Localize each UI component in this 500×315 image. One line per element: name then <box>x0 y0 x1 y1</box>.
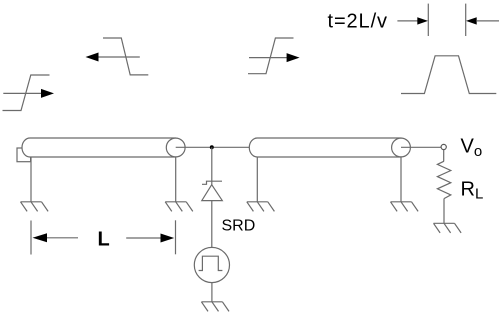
dimension line t arrow right segment <box>477 20 499 22</box>
arrowhead left (t dimension) <box>466 17 477 24</box>
wire arrow line right 2 <box>249 57 288 59</box>
wire TL2 left ground drop <box>256 157 258 202</box>
pulse source circle <box>194 247 229 282</box>
wire pulse source to ground <box>211 283 213 302</box>
wire arrow line left (reflection arrow) <box>97 56 140 58</box>
pulse source square-wave symbol <box>199 256 223 270</box>
wire resistor to ground <box>443 199 445 224</box>
diode SRD cathode bar <box>202 181 222 184</box>
wire TL1 left ground drop <box>30 157 32 202</box>
waveform step left-low (input step) <box>3 75 50 111</box>
dimension tick left <box>427 4 429 36</box>
ground TL1 left <box>21 202 49 212</box>
wire TL2 right ground drop <box>400 157 402 202</box>
SRD diode branch <box>202 147 223 247</box>
dimension L right arrow line <box>126 237 161 239</box>
waveform step upper (reflected step) <box>103 38 148 75</box>
arrowhead left (reflected step) <box>86 53 99 62</box>
waveform trapezoid pulse <box>401 56 496 94</box>
wire arrow line right (propagation arrow) <box>3 92 42 94</box>
transmission line TL1 <box>17 138 249 202</box>
node junction dot <box>210 145 214 149</box>
wire TL1 center to node <box>176 146 250 148</box>
short-circuit stub square (TL1 left termination) <box>17 148 31 162</box>
wire TL2 center to output terminal <box>401 146 441 148</box>
waveform step middle (transmitted step) <box>248 38 294 74</box>
dimension L left extension line <box>30 221 32 255</box>
wire node to diode <box>211 147 213 184</box>
dimension line t arrow left segment <box>397 20 418 22</box>
wire diode to pulse source <box>211 201 213 248</box>
ground TL1 right <box>165 202 193 212</box>
output terminal circle <box>441 144 446 149</box>
resistor RL zigzag <box>437 161 450 198</box>
ground TL2 left <box>247 202 275 212</box>
arrowhead right (input step) <box>41 89 54 98</box>
ground TL2 right <box>391 202 419 212</box>
transmission line TL1 end circle <box>166 138 185 157</box>
dimension L arrowhead right <box>161 234 175 243</box>
transmission line TL1 body <box>22 138 176 157</box>
dimension L left arrow line <box>47 237 79 239</box>
dimension L arrowhead left <box>33 233 48 242</box>
svg-text:SRD: SRD <box>222 217 256 234</box>
diode SRD triangle <box>202 185 223 201</box>
transmission line TL2 end circle <box>392 138 411 157</box>
arrowhead right (transmitted step) <box>287 53 300 62</box>
dimension L <box>31 220 176 254</box>
pulse source V1 <box>194 247 229 301</box>
wire terminal to resistor <box>443 150 445 161</box>
arrowhead right (t dimension) <box>417 17 428 24</box>
dimension tick right <box>465 4 467 36</box>
dimension L right extension line <box>175 220 177 254</box>
svg-text:t=2L/v: t=2L/v <box>328 11 388 33</box>
transmission line TL2 body <box>249 138 401 157</box>
transmission line TL2 <box>249 138 441 202</box>
svg-text:L: L <box>98 228 110 250</box>
ground pulse source <box>201 302 229 312</box>
wire TL1 right ground drop <box>175 157 177 202</box>
ground RL <box>434 223 462 233</box>
